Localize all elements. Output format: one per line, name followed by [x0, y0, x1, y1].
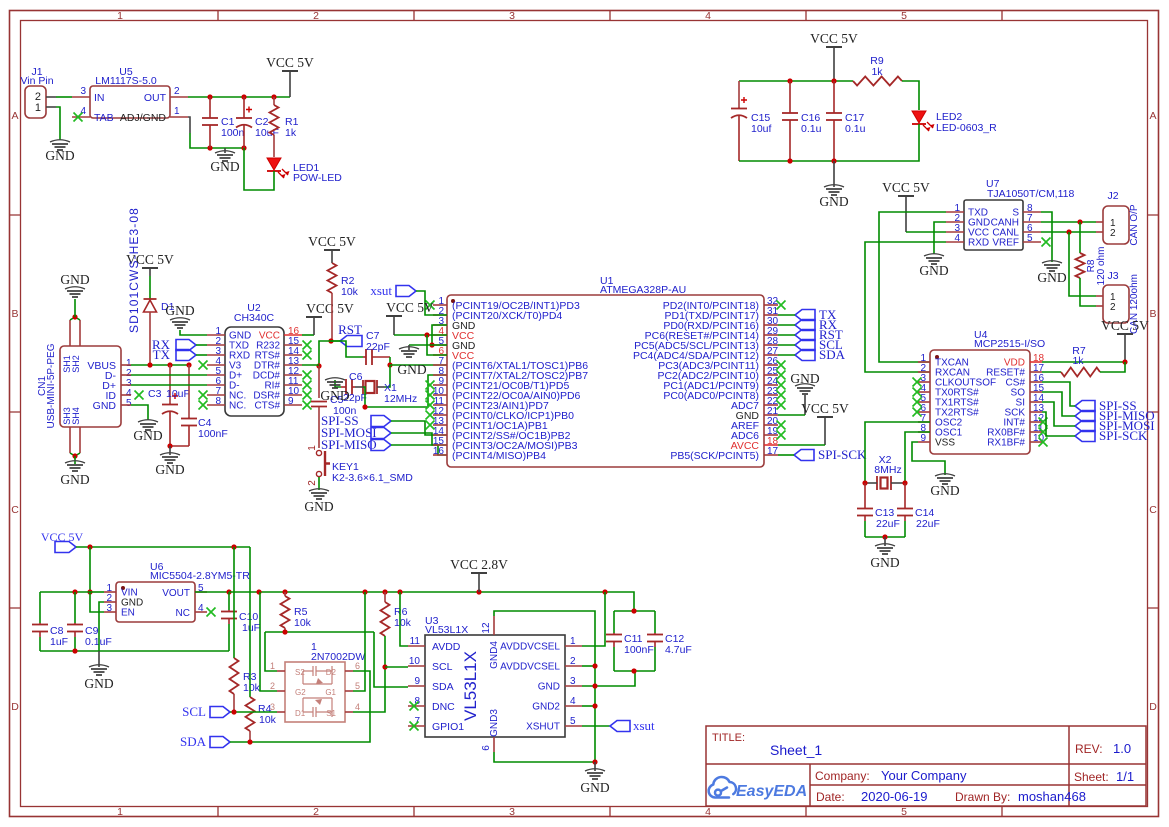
svg-text:Drawn By:: Drawn By: [955, 790, 1010, 804]
ground at CN1 GND [138, 420, 158, 422]
ground at U1.5 [408, 345, 410, 350]
svg-text:Company:: Company: [815, 769, 870, 783]
power flag VCC 2.8V [471, 572, 487, 574]
wire U7.S to ground [1041, 212, 1052, 262]
svg-text:GND: GND [580, 780, 609, 795]
capacitor C11 100nF [613, 611, 615, 633]
svg-text:3: 3 [80, 86, 86, 97]
connector J2 CAN O/P [1103, 206, 1129, 244]
ground at U7.S [1042, 261, 1062, 263]
wire to C11 C12 top [614, 610, 655, 612]
svg-text:2: 2 [174, 86, 180, 97]
wire VIN rail left to C8 C9 [40, 591, 90, 593]
svg-text:J2: J2 [1107, 190, 1118, 202]
wire CANH to J2 [1041, 221, 1096, 223]
svg-text:8MHz: 8MHz [874, 464, 901, 476]
svg-text:SPI-SCK: SPI-SCK [1099, 428, 1148, 443]
no-connect U6 NC [207, 608, 216, 617]
svg-text:22uF: 22uF [916, 518, 940, 530]
svg-text:D: D [1149, 701, 1157, 713]
net flag VCC 5V bottom-left [55, 542, 76, 553]
wire LED2 to bottom rail [739, 124, 919, 161]
wire CN1 GND pin to ground [131, 405, 148, 420]
wire RST to C7 [331, 341, 363, 357]
svg-text:GND3: GND3 [489, 709, 500, 737]
svg-text:A: A [1149, 110, 1156, 122]
ground below C17 [833, 161, 835, 187]
svg-text:10k: 10k [294, 617, 312, 629]
svg-text:D1: D1 [295, 709, 306, 718]
svg-text:10uF: 10uF [166, 388, 190, 400]
wire U5.ADJ down [188, 117, 190, 133]
svg-text:1/1: 1/1 [1116, 769, 1134, 784]
ground below KEY1 [309, 489, 329, 491]
svg-text:MCP2515-I/SO: MCP2515-I/SO [974, 338, 1045, 350]
power flag VCC 5V top-right [826, 46, 842, 48]
svg-text:VOUT: VOUT [162, 588, 190, 599]
capacitor C2 10uF [243, 97, 245, 118]
svg-text:0.1u: 0.1u [801, 123, 822, 135]
wire rail to U3 SDA [374, 632, 408, 687]
IC U6 MIC5504-2.8YM5-TR [116, 582, 195, 622]
svg-text:OUT: OUT [144, 92, 167, 104]
svg-text:C6: C6 [349, 371, 363, 383]
crystal X2 8MHz [877, 476, 891, 490]
wire J1.1 to GND [56, 107, 60, 140]
svg-text:VCC 5V: VCC 5V [41, 530, 84, 544]
svg-text:REV:: REV: [1075, 742, 1103, 756]
svg-text:(PCINT4/MISO)PB4: (PCINT4/MISO)PB4 [452, 450, 546, 462]
svg-text:SD101CWS-HE3-08: SD101CWS-HE3-08 [127, 207, 141, 333]
ground below C1 C2 [224, 148, 226, 153]
svg-text:4.7uF: 4.7uF [665, 644, 692, 656]
wire VCC to U6.VIN [89, 547, 91, 592]
wire J1.2 to U5.IN [56, 96, 72, 98]
svg-text:K2-3.6×6.1_SMD: K2-3.6×6.1_SMD [332, 472, 413, 484]
wire AVDD to 2.8V [400, 592, 408, 646]
svg-text:2: 2 [1110, 302, 1116, 313]
wire X2 ground rail [865, 536, 905, 538]
svg-text:1: 1 [270, 661, 275, 671]
svg-text:4: 4 [705, 806, 711, 818]
svg-text:GND: GND [165, 303, 194, 318]
net flag SPI-MISO [1075, 411, 1095, 422]
svg-text:GND: GND [155, 462, 184, 477]
power flag VCC 5V above U7 [898, 195, 914, 197]
IC U1 ATMEGA328P-AU [447, 295, 764, 467]
ground at U4.VSS [935, 474, 955, 476]
svg-text:GND: GND [133, 428, 162, 443]
capacitor C12 4.7uF [654, 611, 656, 633]
wire G1 to 2.8V [353, 592, 365, 691]
svg-text:NC.: NC. [229, 401, 246, 412]
svg-text:ATMEGA328P-AU: ATMEGA328P-AU [600, 284, 686, 296]
ground above CN1 [65, 287, 85, 289]
svg-text:10uf: 10uf [751, 123, 772, 135]
net flag RST [795, 330, 815, 341]
capacitor C16 0.1u [789, 81, 791, 113]
svg-text:1k: 1k [285, 127, 297, 139]
svg-text:2: 2 [313, 806, 319, 818]
LED1 POW-LED [267, 158, 281, 170]
wire CS# to flag [1042, 382, 1075, 406]
wire C7 to XTAL1 [389, 357, 391, 365]
svg-text:GND4: GND4 [489, 641, 500, 669]
resistor R8 120 ohm [1079, 222, 1081, 253]
wire xsut to U1.2 [416, 291, 447, 315]
wire U7.GND to ground [934, 222, 946, 254]
svg-text:2: 2 [1110, 228, 1116, 239]
wire SDA2.8 rail [265, 631, 374, 633]
net flag SPI-SCK at U1.17 [794, 450, 814, 461]
CN1 shield pins top [69, 320, 71, 346]
wire U5.OUT rail to VCC [188, 96, 290, 98]
svg-text:1: 1 [117, 10, 123, 22]
resistor R5 10k [284, 592, 286, 596]
svg-text:1uF: 1uF [242, 622, 260, 634]
svg-text:120 ohm: 120 ohm [1096, 247, 1107, 286]
IC U7 TJA1050T/CM,118 [964, 200, 1023, 250]
svg-text:GND: GND [538, 682, 560, 693]
resistor R1 1k [273, 97, 275, 105]
svg-text:G1: G1 [325, 688, 336, 697]
title block [706, 726, 1146, 806]
wire C6 to ground [335, 380, 341, 387]
svg-text:A: A [11, 110, 18, 122]
wire OSC1 to X2 [905, 432, 930, 482]
CN1 shield pins bottom [69, 427, 71, 453]
svg-text:G2: G2 [295, 688, 306, 697]
svg-text:1uF: 1uF [50, 636, 68, 648]
svg-text:2: 2 [307, 480, 318, 486]
svg-text:TJA1050T/CM,118: TJA1050T/CM,118 [987, 188, 1075, 200]
svg-text:10k: 10k [259, 714, 277, 726]
IC U4 MCP2515-I/SO [930, 350, 1030, 454]
svg-text:GND: GND [930, 483, 959, 498]
capacitor C14 22uF [904, 483, 906, 509]
svg-text:6: 6 [481, 745, 492, 751]
wire SCL line [230, 711, 277, 713]
junction dots on OUT rail [207, 94, 212, 99]
ground at U2 pin1 [170, 318, 190, 320]
svg-text:VCC 5V: VCC 5V [306, 301, 354, 316]
svg-text:PB5(SCK/PCINT5): PB5(SCK/PCINT5) [670, 450, 759, 462]
svg-text:GPIO1: GPIO1 [432, 721, 464, 733]
net flag TX [795, 310, 815, 321]
wire SCK to flag [1042, 412, 1075, 436]
svg-text:IN: IN [94, 92, 105, 104]
capacitor C7 22pF [363, 356, 366, 358]
connector J3 CAN 120ohm [1103, 285, 1129, 323]
svg-text:CTS#: CTS# [254, 401, 280, 412]
svg-text:12MHz: 12MHz [384, 393, 417, 405]
svg-text:moshan468: moshan468 [1018, 789, 1086, 804]
svg-text:VSS: VSS [935, 438, 955, 449]
power flag VCC 5V at U1.AVCC [817, 416, 833, 418]
svg-text:Your Company: Your Company [881, 768, 967, 783]
capacitor C8 1uF [39, 592, 41, 623]
wire CANL to J3 [1069, 232, 1096, 296]
resistor R2 10k [328, 263, 337, 293]
svg-text:VCC 5V: VCC 5V [810, 31, 858, 46]
capacitor C3 10uF [169, 365, 171, 403]
svg-text:RXD: RXD [968, 238, 989, 249]
no-connect U3 DNC GPIO1 [410, 702, 419, 711]
wire U4.VSS to ground [912, 442, 945, 475]
svg-text:22pF: 22pF [366, 341, 390, 353]
wire R9 to LED2 [902, 81, 919, 110]
svg-text:100nF: 100nF [198, 428, 228, 440]
svg-text:SPI-MISO: SPI-MISO [321, 437, 377, 452]
no-connect U1 pins 9-13 [426, 381, 435, 390]
net flag RST [340, 336, 362, 347]
no-connect CN1 ID [135, 391, 144, 400]
svg-text:10k: 10k [394, 617, 412, 629]
net flag TX [176, 350, 196, 361]
svg-text:SPI-SCK: SPI-SCK [818, 447, 867, 462]
net flag SDA [795, 350, 815, 361]
crystal X1 12MHz [363, 380, 377, 394]
svg-text:AVDD: AVDD [432, 641, 461, 653]
wire TX flag to U2.RXD [196, 354, 207, 356]
wire rail to pin1 [265, 632, 277, 671]
svg-text:22uF: 22uF [876, 518, 900, 530]
capacitor C15 10uf [738, 81, 740, 107]
svg-text:2020-06-19: 2020-06-19 [861, 789, 928, 804]
wire U7.RXD to U4.RXCAN [865, 242, 946, 372]
capacitor C4 100nF [188, 365, 190, 417]
svg-text:3: 3 [509, 10, 515, 22]
svg-text:VCC 5V: VCC 5V [882, 180, 930, 195]
capacitor C5 100n [318, 366, 320, 398]
svg-text:100n: 100n [221, 127, 245, 139]
svg-text:GND: GND [304, 499, 333, 514]
capacitor C9 0.1uF [74, 592, 76, 623]
wire U1.5 GND [409, 344, 447, 346]
power flag VCC 5V above R2 [324, 249, 340, 251]
svg-text:GND: GND [919, 263, 948, 278]
no-connect U1 pins 26-22 [777, 361, 786, 370]
no-connect U2 right pins [303, 341, 312, 350]
net flag SPI-MOSI [1075, 421, 1095, 432]
svg-text:4: 4 [80, 106, 86, 117]
U3 pin 12 GND4 top [493, 616, 495, 635]
wire ground rail below C8 C9 [40, 650, 229, 652]
wire XTAL2 to U1.8 [363, 375, 447, 407]
ground below U6 [98, 651, 100, 667]
svg-text:VCC 5V: VCC 5V [1101, 318, 1149, 333]
net flag SCL [210, 707, 230, 718]
wires SPI flags to U1 [391, 421, 447, 435]
svg-text:5: 5 [126, 398, 132, 409]
svg-text:D: D [11, 701, 19, 713]
svg-text:GND: GND [84, 676, 113, 691]
svg-text:4: 4 [705, 10, 711, 22]
svg-text:B: B [1149, 308, 1156, 320]
svg-text:1: 1 [307, 445, 318, 451]
svg-text:RX1BF#: RX1BF# [987, 438, 1025, 449]
svg-text:GND: GND [60, 272, 89, 287]
no-connect U4 pins 12 11 10 [1039, 418, 1048, 427]
net flag xsut at U1 [396, 286, 416, 297]
no-connect U5 TAB [74, 113, 83, 122]
wire top rail [739, 80, 853, 82]
ground below C3 [169, 446, 171, 455]
wire OSC2 to X2 [865, 422, 930, 482]
ground below X2 [884, 537, 886, 546]
svg-text:100nF: 100nF [624, 644, 654, 656]
svg-text:1: 1 [174, 106, 180, 117]
wire VDD rail [1042, 361, 1125, 363]
svg-text:S2: S2 [295, 668, 305, 677]
wire AVDDVCSEL1 [582, 592, 605, 646]
svg-text:12: 12 [481, 622, 492, 634]
power flag VCC 5V at U4.VDD [1117, 333, 1133, 335]
ground at U7 [924, 254, 944, 256]
svg-text:AVDDVCSEL: AVDDVCSEL [500, 662, 560, 673]
wire RX flag to U2.TXD [196, 344, 207, 346]
svg-text:SCL: SCL [432, 661, 453, 673]
U3 pin 6 GND3 bottom [493, 737, 495, 752]
svg-text:GND: GND [819, 194, 848, 209]
svg-text:Sheet_1: Sheet_1 [770, 742, 822, 758]
wire U3 GND pin3 [582, 671, 635, 686]
resistor R7 1k [1042, 371, 1061, 373]
svg-text:5: 5 [901, 10, 907, 22]
net flag SCL [795, 340, 815, 351]
svg-text:XSHUT: XSHUT [526, 722, 560, 733]
wire XTAL1 to U1.7 [390, 364, 447, 366]
svg-text:C: C [11, 504, 19, 516]
svg-text:EN: EN [121, 608, 135, 619]
net flag SPI-MOSI [371, 428, 391, 439]
svg-text:C3: C3 [148, 388, 162, 400]
no-connect U4 pins 3-6 [913, 378, 922, 387]
wire U7.VCC to VCC [906, 231, 946, 233]
svg-text:J3: J3 [1107, 270, 1118, 282]
svg-text:TITLE:: TITLE: [712, 732, 745, 744]
svg-text:0.1u: 0.1u [845, 123, 866, 135]
resistor R4 10k [249, 547, 251, 697]
svg-text:VCC 5V: VCC 5V [801, 401, 849, 416]
connector CN1 USB-MINI-5P-PEG [60, 346, 121, 427]
wire AVDDVCSEL2 [582, 665, 595, 667]
capacitor C10 1uF [195, 591, 229, 593]
junction RST [328, 338, 333, 343]
svg-text:1k: 1k [1072, 355, 1084, 367]
svg-text:GND: GND [210, 159, 239, 174]
wires USB D+ D- to U2 [131, 374, 207, 376]
wire U7.TXD to U4.TXCAN [879, 212, 946, 362]
capacitor C17 0.1u [833, 81, 835, 113]
svg-text:SH4: SH4 [71, 407, 81, 425]
svg-text:POW-LED: POW-LED [293, 172, 342, 184]
net flag SDA [210, 737, 230, 748]
diode D1 SD101CWS-HE3-08 [142, 267, 158, 269]
svg-text:SDA: SDA [432, 681, 454, 693]
wire U3 GND2 pin4 [582, 705, 595, 707]
svg-text:LM1117S-5.0: LM1117S-5.0 [95, 75, 157, 87]
svg-text:VREF: VREF [992, 238, 1019, 249]
svg-text:EasyEDA: EasyEDA [736, 783, 807, 800]
wire SI to flag [1042, 402, 1075, 426]
svg-text:GND: GND [1037, 270, 1066, 285]
net flag RX [795, 320, 815, 331]
no-connect U2 NC pins [199, 391, 208, 400]
LED2 LED-0603_R [912, 111, 926, 123]
wire SDA line [230, 671, 370, 742]
resistor R3 10k [233, 547, 235, 658]
svg-text:CAN O/P: CAN O/P [1129, 204, 1140, 245]
wire VCC rail [76, 546, 250, 548]
transistor pack 2N7002DW [285, 662, 345, 722]
svg-text:ADJ/GND: ADJ/GND [120, 112, 167, 124]
wire S1 to SCL2.8 [353, 667, 385, 712]
svg-text:SDA: SDA [180, 734, 207, 749]
svg-text:D2: D2 [326, 668, 337, 677]
svg-text:GND: GND [93, 400, 117, 412]
svg-text:1: 1 [35, 102, 41, 114]
svg-text:10k: 10k [243, 682, 261, 694]
svg-text:VCC 5V: VCC 5V [386, 300, 434, 315]
wire VCC to U1.4 and U1.6 [394, 334, 447, 336]
svg-text:3: 3 [270, 702, 275, 712]
svg-text:B: B [11, 308, 18, 320]
svg-text:Sheet:: Sheet: [1074, 770, 1109, 784]
svg-text:SDA: SDA [819, 347, 846, 362]
svg-text:MIC5504-2.8YM5-TR: MIC5504-2.8YM5-TR [150, 570, 250, 582]
wire G2 to 2.8V [260, 592, 277, 691]
svg-text:4: 4 [355, 702, 360, 712]
svg-text:VL53L1X: VL53L1X [425, 624, 468, 636]
net flag SPI-SS [1075, 401, 1095, 412]
svg-text:GND2: GND2 [532, 702, 560, 713]
svg-text:SH2: SH2 [71, 355, 81, 373]
svg-text:CH340C: CH340C [234, 312, 275, 324]
ground at J1 [50, 140, 70, 142]
resistor R6 10k [384, 592, 386, 602]
svg-text:GND: GND [397, 362, 426, 377]
svg-text:2: 2 [270, 681, 275, 691]
svg-text:Date:: Date: [816, 790, 845, 804]
svg-text:SCL: SCL [182, 704, 206, 719]
svg-text:GND: GND [45, 148, 74, 163]
no-connect U1 pin1 [426, 301, 435, 310]
net flag SPI-SS [371, 416, 391, 427]
svg-text:1.0: 1.0 [1113, 741, 1131, 756]
wire GND3 loop [494, 752, 595, 762]
svg-text:VCC 2.8V: VCC 2.8V [450, 557, 508, 572]
svg-text:NC: NC [176, 608, 190, 619]
svg-text:S1: S1 [326, 709, 336, 718]
power flag VCC 5V at U1 [386, 315, 402, 317]
svg-text:Vin Pin: Vin Pin [20, 75, 53, 87]
wire SO to flag [1042, 392, 1075, 416]
capacitor C6 22pF [341, 386, 346, 388]
svg-text:DNC: DNC [432, 701, 455, 713]
svg-text:RST: RST [338, 322, 362, 337]
EasyEDA logo [709, 777, 736, 798]
svg-text:VCC 5V: VCC 5V [308, 234, 356, 249]
junction dots bottom rail [207, 145, 212, 150]
wire KEY1 to ground [318, 477, 320, 490]
resistor R9 1k [853, 77, 902, 86]
svg-text:VL53L1X: VL53L1X [461, 651, 480, 721]
svg-text:5: 5 [355, 681, 360, 691]
svg-text:GND: GND [320, 388, 349, 403]
wire RST to C5/KEY1 column [319, 341, 331, 366]
push button KEY1 [316, 450, 321, 455]
